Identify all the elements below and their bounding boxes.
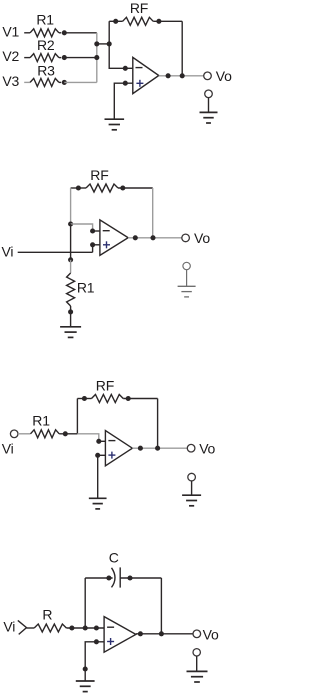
svg-text:R1: R1 [32, 413, 50, 429]
wire [93, 230, 100, 232]
ground [105, 119, 125, 130]
junction [166, 73, 171, 78]
svg-text:RF: RF [96, 378, 114, 394]
svg-text:V2: V2 [2, 48, 19, 64]
ground [89, 498, 107, 509]
terminal [188, 473, 196, 495]
svg-text:R1: R1 [77, 279, 95, 295]
node V1 [2, 24, 19, 40]
junction [123, 81, 128, 86]
wire [157, 399, 159, 449]
node V2 [2, 48, 19, 64]
wire [132, 447, 187, 449]
wire [70, 224, 72, 260]
wire [93, 244, 100, 246]
ground [178, 286, 196, 297]
capacitor C [85, 550, 161, 588]
wire [70, 312, 72, 327]
wire [64, 57, 97, 59]
svg-text:Vi: Vi [2, 243, 14, 259]
op-amp U4 [104, 617, 136, 653]
junction [123, 66, 128, 71]
wire [64, 32, 97, 34]
svg-text:RF: RF [90, 167, 108, 183]
ground [187, 671, 208, 682]
svg-text:R2: R2 [37, 37, 55, 53]
wire [98, 454, 106, 456]
ground [200, 112, 218, 123]
junction [107, 41, 112, 46]
junction [94, 41, 99, 46]
wire [85, 642, 104, 681]
junction [94, 639, 99, 644]
junction [155, 446, 160, 451]
junction [68, 221, 73, 226]
resistor R1 [67, 257, 95, 314]
wire [136, 633, 193, 635]
wire [159, 75, 204, 77]
op-amp U1 [133, 57, 159, 93]
svg-text:V1: V1 [2, 24, 19, 40]
resistor R1 [18, 413, 77, 438]
wire [114, 83, 133, 119]
terminal [205, 90, 213, 112]
wire [18, 251, 93, 253]
ground [76, 681, 95, 692]
svg-text:Vo: Vo [194, 230, 210, 246]
node Vi [3, 618, 15, 634]
svg-text:RF: RF [130, 0, 148, 16]
svg-text:Vi: Vi [3, 618, 15, 634]
wire [64, 81, 97, 83]
svg-text:R1: R1 [36, 11, 54, 27]
junction [83, 625, 88, 630]
resistor RF [77, 378, 157, 403]
junction [95, 453, 100, 458]
svg-text:Vo: Vo [216, 68, 232, 84]
junction [83, 666, 88, 671]
resistor RF [109, 0, 182, 25]
resistor R [27, 607, 86, 632]
wire [99, 440, 106, 442]
junction [133, 235, 138, 240]
junction [90, 242, 95, 247]
terminal Vo [193, 627, 219, 643]
svg-text:Vi: Vi [2, 440, 14, 456]
resistor R1 [24, 11, 67, 37]
wire [96, 33, 98, 83]
svg-text:V3: V3 [2, 73, 19, 89]
node V3 [2, 73, 19, 89]
svg-text:Vo: Vo [199, 440, 215, 456]
wire [125, 67, 133, 69]
op-amp U2 [100, 220, 128, 256]
resistor RF [71, 167, 153, 192]
wire [160, 578, 162, 634]
ground [60, 327, 81, 338]
resistor R2 [24, 37, 67, 61]
wire [152, 188, 154, 238]
svg-text:Vo: Vo [203, 627, 219, 643]
svg-text:R3: R3 [37, 62, 55, 78]
junction [138, 631, 143, 636]
svg-text:R: R [42, 607, 52, 623]
junction [159, 631, 164, 636]
wire [70, 188, 72, 224]
wire [84, 578, 86, 628]
junction [138, 446, 143, 451]
wire [77, 434, 98, 442]
junction [150, 235, 155, 240]
wire [97, 43, 109, 45]
node Vi [2, 243, 14, 259]
terminal Vi [2, 430, 18, 456]
wire [92, 245, 94, 253]
terminal [18, 620, 27, 634]
wire [85, 627, 104, 629]
wire [181, 21, 183, 76]
svg-text:C: C [109, 550, 119, 566]
junction [94, 55, 99, 60]
wire [97, 455, 99, 498]
wire [128, 237, 182, 239]
terminal Vo [204, 68, 232, 84]
wire [109, 21, 125, 68]
terminal Vo [187, 440, 215, 456]
junction [94, 625, 99, 630]
terminal Vo [182, 230, 211, 246]
terminal [193, 649, 200, 672]
resistor R3 [24, 62, 67, 86]
wire [71, 224, 93, 231]
wire [76, 399, 78, 434]
op-amp U3 [105, 431, 132, 466]
terminal [183, 262, 190, 286]
ground [182, 495, 201, 506]
junction [90, 228, 95, 233]
junction [96, 439, 101, 444]
junction [180, 73, 185, 78]
